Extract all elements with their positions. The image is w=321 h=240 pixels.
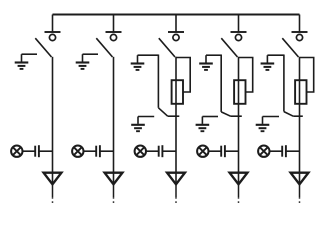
switch S1 fixed contact bar (45, 31, 61, 33)
lamp wire (branch 3) (146, 150, 159, 152)
lamp HL3 (135, 146, 146, 157)
resistor tap loop wire (branch 4) (239, 58, 253, 93)
switch S5 contact circle (296, 34, 302, 40)
branch 5 left wire (283, 55, 285, 112)
switch S4 blade (open) (221, 38, 237, 57)
faint tail wire end (branch 2) (113, 197, 115, 205)
branch 2 main vertical wire (113, 57, 115, 185)
tail wire below triangle (branch 5) (299, 184, 301, 197)
capacitor wire to main (branch 4) (225, 150, 239, 152)
capacitor C3 (159, 145, 163, 157)
earth triangle (branch 3) (167, 173, 185, 185)
switch S3 blade (open) (159, 38, 175, 57)
capacitor wire to main (branch 1) (39, 150, 53, 152)
earthing switch contact wire to main (branch 5) (293, 115, 303, 117)
earth triangle (branch 4) (230, 173, 248, 185)
lamp wire (branch 1) (23, 150, 36, 152)
earthing switch blade (branch 4) (221, 112, 230, 116)
tail wire below triangle (branch 3) (175, 184, 177, 197)
resistor R4 box (234, 80, 245, 104)
branch 4 drop wire from bus (238, 15, 240, 33)
upper ground (branch 3) (131, 55, 145, 70)
upper ground (branch 4) (199, 55, 213, 70)
capacitor C4 (221, 145, 225, 157)
branch 3 left wire (157, 55, 159, 108)
lamp HL2 (72, 146, 83, 157)
branch 3 upper ground wire (138, 54, 159, 56)
switch S4 contact circle (235, 34, 241, 40)
lamp wire (branch 5) (270, 150, 283, 152)
lamp wire (branch 4) (209, 150, 222, 152)
capacitor C1 (35, 145, 39, 157)
capacitor wire to main (branch 2) (100, 150, 114, 152)
earthing switch contact wire to main (branch 4) (231, 115, 242, 117)
capacitor C2 (96, 145, 100, 157)
branch 4 left wire (220, 55, 222, 112)
switch S5 fixed contact bar (292, 31, 308, 33)
faint tail wire end (branch 1) (52, 197, 54, 205)
tail wire below triangle (branch 4) (238, 184, 240, 197)
switch S2 fixed contact bar (106, 31, 122, 33)
earth triangle (branch 5) (291, 173, 309, 185)
branch 5 drop wire from bus (299, 15, 301, 33)
capacitor C5 (282, 145, 286, 157)
faint tail wire end (branch 5) (299, 197, 301, 205)
tail wire below triangle (branch 2) (113, 184, 115, 197)
lower ground contact wire (branch 4) (202, 116, 218, 118)
branch 1 ground contact wire (22, 53, 38, 55)
capacitor wire to main (branch 5) (286, 150, 300, 152)
branch 3 drop wire from bus (175, 15, 177, 33)
ground (branch 2) (76, 54, 90, 69)
ground (branch 1) (15, 54, 29, 69)
switch S2 blade (open) (96, 38, 112, 57)
branch 4 upper ground wire (206, 54, 221, 56)
resistor tap loop wire (branch 3) (176, 58, 190, 93)
top bus wire (53, 14, 300, 16)
switch S3 fixed contact bar (168, 31, 184, 33)
lamp HL4 (197, 146, 208, 157)
earthing switch blade (branch 3) (158, 108, 167, 116)
lower ground contact wire (branch 5) (263, 116, 280, 118)
resistor tap loop wire (branch 5) (300, 58, 314, 93)
branch 5 main vertical wire (299, 57, 301, 185)
switch S3 contact circle (173, 34, 179, 40)
switch S1 blade (open) (35, 38, 51, 57)
branch 1 drop wire from bus (52, 15, 54, 33)
branch 2 drop wire from bus (113, 15, 115, 33)
branch 2 ground contact wire (83, 53, 99, 55)
earthing switch contact wire to main (branch 3) (168, 115, 180, 117)
lower ground (branch 3) (131, 117, 145, 132)
branch 1 main vertical wire (52, 57, 54, 185)
branch 3 main vertical wire (175, 57, 177, 185)
tail wire below triangle (branch 1) (52, 184, 54, 197)
earth triangle (branch 1) (44, 173, 62, 185)
lower ground contact wire (branch 3) (138, 116, 154, 118)
switch S4 fixed contact bar (231, 31, 247, 33)
faint tail wire end (branch 4) (238, 197, 240, 205)
upper ground (branch 5) (261, 55, 275, 70)
branch 4 main vertical wire (238, 57, 240, 185)
switch S1 contact circle (49, 34, 55, 40)
capacitor wire to main (branch 3) (162, 150, 176, 152)
earth triangle (branch 2) (105, 173, 123, 185)
lower ground (branch 4) (196, 117, 210, 132)
earthing switch blade (branch 5) (284, 112, 293, 117)
lamp wire (branch 2) (84, 150, 97, 152)
resistor R5 box (295, 80, 306, 104)
resistor R3 box (172, 80, 183, 104)
branch 5 upper ground wire (267, 54, 284, 56)
lower ground (branch 5) (256, 117, 270, 132)
lamp HL5 (258, 146, 269, 157)
faint tail wire end (branch 3) (175, 197, 177, 205)
switch S2 contact circle (110, 34, 116, 40)
switch S5 blade (open) (282, 38, 298, 57)
lamp HL1 (11, 146, 22, 157)
